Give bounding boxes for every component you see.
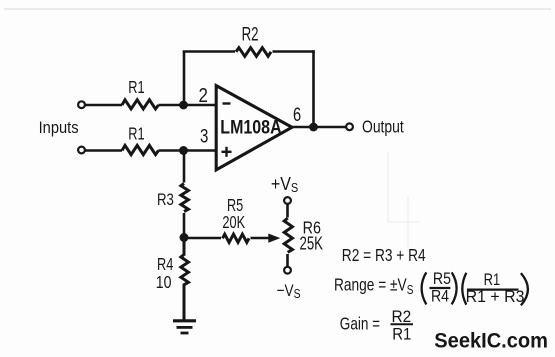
svg-text:R1: R1 [392, 325, 411, 343]
resistor R4 [181, 238, 189, 320]
wire: feedback right vertical down to output node [312, 50, 315, 127]
faint page top rule [4, 8, 551, 10]
wire: R3 to junction [183, 213, 186, 238]
node: output junction dot [309, 123, 318, 132]
svg-text:20K: 20K [222, 213, 245, 233]
output terminal (open circle) [346, 123, 353, 130]
node: pin2 junction dot [179, 101, 188, 110]
svg-text:R3: R3 [157, 190, 174, 209]
wire: pin3 node down to R3 [183, 151, 186, 183]
wire: feedback left vertical from pin2 node up [183, 52, 186, 106]
wire: R6 to -Vs [286, 254, 289, 267]
op-amp minus sign [223, 102, 231, 104]
wire: input1 to pin 2 [159, 104, 217, 107]
svg-text:R1: R1 [484, 272, 501, 290]
parens around R5/R4 [422, 272, 427, 304]
svg-text:10: 10 [156, 272, 172, 292]
svg-text:Range = ±VS: Range = ±VS [334, 276, 414, 297]
resistor R5 [223, 234, 250, 242]
wire: input2 to pin 3 [159, 149, 217, 152]
svg-text:Inputs: Inputs [39, 119, 79, 137]
resistor R1 (lower) [122, 145, 159, 154]
svg-text:R1: R1 [128, 78, 144, 98]
wire: output [292, 126, 346, 129]
+Vs terminal (open circle) [284, 197, 291, 204]
wire: junction to R5 [184, 237, 221, 240]
resistor R2 [236, 48, 271, 57]
resistor R3 [181, 184, 189, 212]
svg-text:25K: 25K [300, 233, 324, 254]
node: R3/R4/R5 junction dot [180, 233, 189, 242]
svg-text:R1 + R3: R1 + R3 [466, 288, 525, 306]
svg-text:R2: R2 [242, 23, 259, 45]
resistor R1 (upper) [122, 100, 159, 109]
-Vs terminal (open circle) [284, 267, 291, 274]
wire: input2 lead [85, 149, 122, 152]
svg-text:LM108A: LM108A [220, 116, 282, 138]
parens around R1/(R1+R3) [462, 273, 466, 305]
wire: feedback top right segment [273, 50, 315, 53]
svg-text:Gain =: Gain = [340, 315, 380, 334]
svg-text:6: 6 [293, 104, 301, 125]
potentiometer R6 [284, 218, 292, 252]
wire: feedback top left segment [183, 50, 235, 53]
svg-text:R4: R4 [431, 288, 449, 306]
wire: input1 lead [85, 104, 122, 107]
faint ghost lines [388, 152, 420, 252]
svg-text:R1: R1 [128, 124, 144, 144]
wiper arrowhead into R6 [268, 234, 280, 243]
ground [173, 321, 196, 333]
wire: +Vs to R6 [286, 204, 289, 218]
wire: R5 to wiper arrow [251, 237, 270, 240]
input terminal 2 (open circle) [78, 147, 85, 154]
node: pin3 junction dot [179, 146, 188, 155]
svg-text:Output: Output [362, 118, 404, 137]
op-amp U1 LM108A triangle [216, 86, 292, 170]
input terminal 1 (open circle) [78, 101, 85, 108]
svg-text:R2 = R3 + R4: R2 = R3 + R4 [342, 246, 426, 265]
svg-text:2: 2 [199, 84, 208, 107]
svg-text:R5: R5 [433, 270, 451, 288]
svg-text:3: 3 [200, 124, 208, 146]
svg-text:SeekIC.com: SeekIC.com [434, 329, 548, 353]
op-amp plus sign [222, 147, 232, 157]
